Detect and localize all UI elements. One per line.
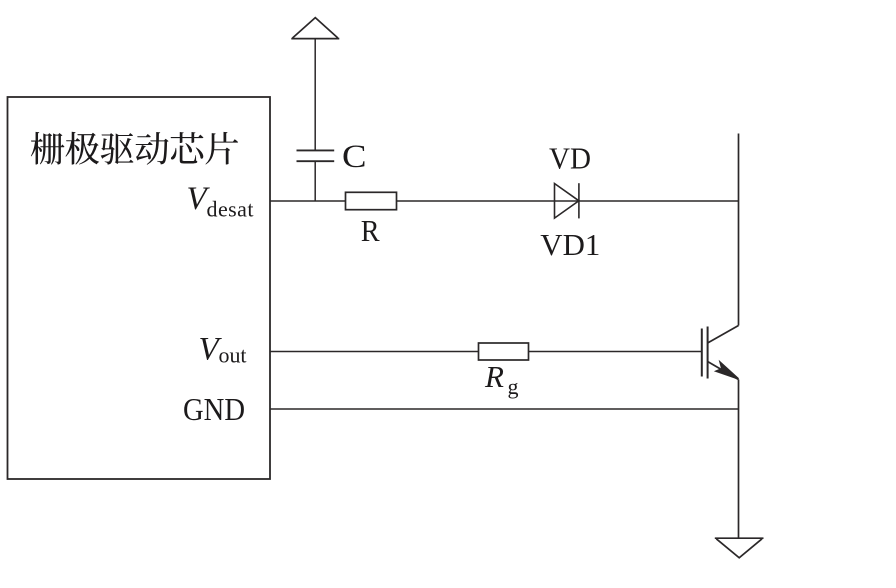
IGBT Q1 collector diagonal: [708, 326, 739, 344]
IGBT Q1 gate bars: [702, 327, 708, 379]
pin label GND: [183, 391, 245, 427]
wire: power arrow to capacitor top: [314, 39, 316, 151]
chip box U1 (gate drive chip): [8, 97, 271, 479]
svg-text:desat: desat: [207, 197, 254, 222]
wire: Vdesat net (chip pin to IGBT collector): [270, 200, 739, 202]
wire: GND net (chip pin to IGBT emitter): [270, 408, 739, 410]
power rail symbol (up arrow): [291, 18, 339, 39]
pin label V_out: [199, 332, 247, 368]
label: chip title 栅极驱动芯片: [31, 132, 238, 165]
label VD1: [540, 227, 600, 262]
svg-text:GND: GND: [183, 391, 245, 427]
pin label V_desat: [187, 181, 254, 222]
label C: [342, 139, 367, 175]
label VD: [549, 141, 591, 176]
label Rg: [484, 359, 519, 399]
svg-text:VD: VD: [549, 141, 591, 176]
wire: capacitor bottom to Vdesat net: [314, 161, 316, 201]
svg-text:R: R: [484, 359, 504, 394]
svg-text:R: R: [361, 213, 380, 248]
svg-text:VD1: VD1: [540, 227, 600, 262]
IGBT Q1 emitter diagonal with arrow: [708, 362, 739, 380]
resistor Rg: [479, 343, 529, 360]
resistor R: [346, 192, 397, 209]
diode VD1: [555, 183, 579, 218]
wire: emitter vertical to ground: [738, 380, 740, 539]
svg-text:C: C: [342, 139, 367, 175]
label R: [361, 213, 380, 248]
wire: collector vertical: [738, 134, 740, 326]
capacitor C: [297, 150, 335, 161]
svg-text:g: g: [508, 374, 519, 399]
svg-text:out: out: [219, 343, 247, 368]
ground symbol: [715, 538, 764, 558]
wire: Vout net (chip pin to IGBT gate): [270, 351, 702, 353]
